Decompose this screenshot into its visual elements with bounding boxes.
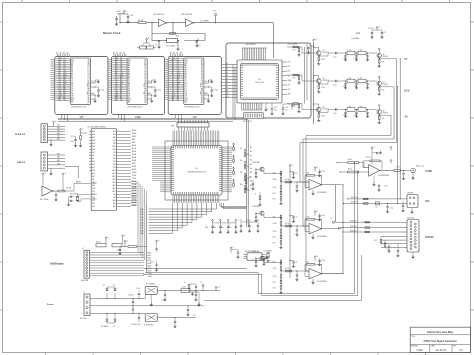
wire J2 pin rows — [48, 126, 65, 140]
svg-text:+5: +5 — [126, 240, 128, 242]
svg-text:D5: D5 — [71, 88, 73, 90]
ground U14 negative supply — [312, 234, 314, 236]
ground J3 — [50, 168, 52, 172]
resistor R23 75 CVBS series — [394, 170, 401, 172]
svg-text:CLK: CLK — [57, 130, 60, 132]
EPROM IC U10 body — [70, 58, 90, 104]
svg-text:D3: D3 — [88, 71, 90, 73]
svg-text:10k: 10k — [240, 172, 243, 174]
svg-text:+5: +5 — [125, 11, 127, 13]
svg-text:R 150: R 150 — [273, 187, 277, 189]
svg-text:100n: 100n — [228, 227, 231, 229]
svg-text:R 75: R 75 — [397, 167, 400, 169]
svg-text:D0: D0 — [201, 65, 203, 67]
svg-text:2SC458: 2SC458 — [383, 113, 389, 115]
connector J6 mini-DIN R/C — [407, 195, 418, 208]
wire subcarrier node — [262, 258, 268, 260]
svg-text:COM1: COM1 — [148, 276, 152, 278]
wire J3 to MCU area — [65, 166, 79, 178]
capacitor C1 — [115, 18, 117, 20]
svg-text:KEY2: KEY2 — [148, 258, 152, 260]
svg-text:GND: GND — [91, 93, 94, 95]
wire LPF row output — [379, 114, 391, 116]
svg-text:D6: D6 — [71, 90, 73, 92]
wire +5 analog rail vertical — [289, 168, 291, 278]
svg-text:D6: D6 — [201, 77, 203, 79]
resistor ladder r2 U15 — [280, 267, 282, 270]
power +5 master clock — [123, 10, 125, 14]
svg-text:C 1u: C 1u — [295, 262, 298, 264]
svg-text:R 1.2k: R 1.2k — [285, 268, 289, 270]
inductor L row second — [347, 51, 355, 55]
ground ICP parts — [80, 140, 82, 144]
svg-text:C 104: C 104 — [214, 90, 218, 92]
wire input ladder feed U13 — [300, 181, 309, 183]
svg-text:RN1: RN1 — [171, 126, 174, 128]
svg-text:RXD: RXD — [57, 127, 60, 129]
diode D2 — [114, 293, 116, 299]
resistor R2c base shunt — [298, 48, 300, 51]
svg-text:D6: D6 — [88, 77, 90, 79]
svg-text:VC1: VC1 — [288, 75, 291, 77]
resistor R3a base series — [293, 74, 298, 76]
svg-text:TP: TP — [201, 282, 203, 284]
svg-text:OE: OE — [185, 96, 187, 98]
EPROM U10 pin label columns — [56, 59, 71, 101]
svg-text:VY1: VY1 — [288, 66, 291, 68]
svg-text:R 1k: R 1k — [293, 106, 296, 108]
voltage regulator U18 7905 — [145, 314, 157, 322]
svg-text:+5: +5 — [82, 129, 84, 131]
ground below crystal network — [176, 47, 179, 50]
wire CVBS output — [380, 169, 394, 171]
svg-text:ROUT (75): ROUT (75) — [351, 197, 358, 199]
svg-text:U17 LM7805C: U17 LM7805C — [146, 284, 157, 286]
transistor Q1 2SC1815 — [317, 51, 322, 56]
IC U8 body — [247, 253, 262, 260]
serial converter U5 left pins — [222, 65, 237, 98]
wire trunk joins — [336, 221, 344, 223]
svg-text:OE: OE — [128, 96, 130, 98]
svg-text:U4: U4 — [195, 168, 197, 170]
ground U15 negative supply — [312, 279, 314, 281]
svg-text:D1: D1 — [144, 67, 146, 69]
capacitor C13 104 — [271, 103, 273, 107]
power +5 U5 — [291, 104, 293, 108]
power +5 U14 — [314, 211, 316, 215]
wire ladder to opamp U13 — [281, 181, 309, 183]
wire opamp3 output up to J7 row — [322, 232, 344, 274]
serial converter U5 TR9C1710 body — [237, 60, 282, 103]
wire LPF Cr feedback vertical — [305, 136, 307, 272]
svg-text:R 1.2k: R 1.2k — [285, 179, 289, 181]
wire EPROM Y/Y right pin drops — [94, 95, 96, 99]
svg-text:GOUT (75): GOUT (75) — [351, 201, 358, 203]
power +5 U16 — [371, 147, 373, 151]
serial converter U5 bottom pins — [242, 103, 262, 110]
svg-text:D3: D3 — [71, 84, 73, 86]
resistor R3b 470 emitter — [318, 83, 320, 85]
svg-text:R 150: R 150 — [273, 231, 277, 233]
svg-text:D0: D0 — [144, 65, 146, 67]
svg-text:KB3: KB3 — [57, 163, 60, 165]
svg-text:R148 (75): R148 (75) — [350, 230, 357, 232]
svg-text:OE: OE — [144, 82, 146, 84]
wire Q1 collector to rail — [314, 48, 319, 51]
svg-text:+: + — [310, 187, 311, 189]
svg-text:P11: P11 — [113, 155, 116, 157]
CPU pull-up resistors column A — [233, 147, 235, 150]
capacitor C11 104 — [152, 86, 155, 88]
group box serial converter and LPF — [226, 43, 311, 118]
ground C31 — [377, 153, 381, 155]
svg-text:Power: Power — [47, 304, 54, 306]
voltage regulator U17 7805 — [145, 286, 157, 294]
svg-text:R 1k: R 1k — [382, 62, 385, 64]
svg-text:D3: D3 — [144, 71, 146, 73]
resistor column J7 lower R150 — [380, 240, 382, 243]
svg-text:TP: TP — [330, 218, 332, 220]
capacitor C44 aux near MCU — [119, 247, 121, 250]
svg-text:VCC: VCC — [148, 81, 151, 83]
wire reset node feed — [74, 184, 91, 192]
svg-text:Y/Y: Y/Y — [404, 59, 408, 61]
capacitor C10 104 — [95, 86, 98, 88]
svg-text:R 1k: R 1k — [293, 50, 296, 52]
wire input ladder feed U15 — [306, 270, 309, 272]
svg-text:RESET: RESET — [92, 183, 97, 185]
svg-text:D6: D6 — [144, 77, 146, 79]
wire CVBS to jack — [401, 169, 410, 171]
svg-text:D5: D5 — [185, 88, 187, 90]
resistor R27 ladder to opamp1 — [259, 196, 261, 200]
svg-text:VREF: VREF — [288, 80, 292, 82]
power +5 U13 — [314, 167, 316, 171]
svg-text:D4: D4 — [128, 86, 130, 88]
svg-text:Jan 30,'94: Jan 30,'94 — [436, 350, 447, 352]
svg-text:C 104: C 104 — [321, 171, 325, 173]
ground U13 negative supply — [312, 190, 314, 192]
svg-text:D5: D5 — [128, 88, 130, 90]
ground aux right group — [155, 268, 158, 271]
capacitor LC shunt 3 — [367, 53, 369, 56]
capacitor C41 output2 — [195, 291, 197, 295]
inductor L row second — [347, 108, 355, 112]
svg-text:P14: P14 — [113, 164, 116, 166]
svg-text:+: + — [310, 276, 311, 278]
svg-text:C 104: C 104 — [321, 260, 325, 262]
ground Q1 emitter resistor — [318, 61, 320, 63]
capacitor C38 1000u low — [132, 310, 134, 314]
wire LC node 3 — [366, 80, 369, 82]
transistor Q2 follower 2SC458 — [377, 53, 382, 58]
wire L1 to node — [119, 15, 121, 23]
wire video loop B — [144, 172, 358, 296]
svg-text:D11: D11 — [226, 96, 229, 98]
power +5 reset B — [62, 173, 64, 177]
svg-text:GND: GND — [57, 133, 60, 135]
svg-text:CE: CE — [144, 80, 146, 82]
capacitor C46 U8 — [237, 251, 239, 253]
svg-text:NTSC Test Signal Generator: NTSC Test Signal Generator — [424, 340, 457, 343]
connector J3 body — [41, 152, 48, 171]
op-amp U16 CVBS NJM4580 — [369, 165, 380, 177]
wire crystal X2 to MPU — [78, 195, 92, 197]
svg-text:VCC: VCC — [57, 136, 60, 138]
resistor ladder r4 U15 — [280, 280, 282, 283]
resistor network J7 series resistors — [365, 221, 370, 223]
svg-text:D7: D7 — [201, 79, 203, 81]
title block row separators — [410, 334, 470, 336]
resistor ladder r1 U14 — [280, 214, 282, 216]
svg-text:D7: D7 — [128, 92, 130, 94]
capacitor LC shunt 2 — [356, 110, 358, 113]
border tick marks bottom — [46, 353, 426, 355]
wire LC node 3 — [366, 52, 369, 54]
svg-text:R 1.2k: R 1.2k — [285, 223, 289, 225]
wire reset supply — [42, 177, 44, 185]
node master clock output junction — [215, 22, 216, 23]
svg-text:C 82p: C 82p — [354, 86, 358, 88]
svg-text:D5: D5 — [226, 78, 228, 80]
EPROM group box -/Cr — [168, 57, 221, 115]
resistor R3c base shunt — [298, 76, 300, 79]
resistor network RN1 — [177, 123, 209, 127]
wire rail branch U13 — [289, 181, 290, 182]
svg-text:+5: +5 — [107, 237, 109, 239]
capacitor rail decoupling U14 — [290, 215, 294, 217]
capacitor input buffer U13 — [255, 171, 257, 173]
svg-text:C 82p: C 82p — [354, 115, 358, 117]
power +5 J2 — [52, 121, 54, 125]
svg-text:R 300: R 300 — [273, 268, 277, 270]
svg-text:10k: 10k — [240, 160, 243, 162]
CPU U4 left pins — [160, 147, 171, 192]
resistor R26 bias middle — [245, 180, 247, 184]
svg-text:+5: +5 — [158, 240, 160, 242]
CPU pull-up value labels — [240, 148, 250, 192]
connector J2 body — [41, 124, 48, 143]
svg-text:+5: +5 — [373, 147, 375, 149]
diode D3 — [106, 314, 108, 319]
wire reset output — [54, 190, 59, 192]
wire EPROM C/Cb bottom drops to bus — [119, 114, 125, 121]
svg-text:100n: 100n — [221, 227, 224, 229]
resistor ladder r2 U13 — [280, 178, 282, 181]
wire inter-block bus between Y/Y and C/Cb — [108, 59, 112, 99]
wire J7 input rows — [343, 222, 407, 232]
svg-text:C 10u: C 10u — [333, 84, 337, 86]
capacitor C12 104 — [209, 86, 212, 88]
svg-text:R/Cb/Cr: R/Cb/Cr — [426, 237, 435, 239]
svg-text:D10: D10 — [226, 93, 229, 95]
svg-text:R 300: R 300 — [273, 223, 277, 225]
svg-text:GND: GND — [204, 93, 207, 95]
power +5 Q6 collector — [378, 106, 380, 110]
svg-text:P11-B: P11-B — [132, 178, 136, 180]
svg-text:D1: D1 — [128, 80, 130, 82]
resistor series input U13 — [286, 181, 292, 183]
wire power mid to loop — [199, 305, 204, 307]
resistor ladder r3 U15 — [280, 271, 282, 275]
ground Q5 emitter resistor — [318, 117, 320, 119]
svg-text:OE: OE — [71, 96, 73, 98]
capacitor C2 22p — [158, 40, 160, 42]
wire feedback U15 — [315, 264, 322, 274]
wire C3 feed — [124, 13, 128, 15]
wire CVBS input B to opamp — [359, 171, 369, 173]
svg-text:fc=4.2MHz: fc=4.2MHz — [352, 38, 360, 40]
svg-text:P10: P10 — [92, 191, 95, 193]
wire LC node 3 — [366, 109, 369, 111]
capacitor C47 aux right 10u — [155, 247, 157, 249]
capacitor C36 1000u — [132, 299, 134, 302]
svg-text:OE: OE — [87, 82, 89, 84]
resistor pair above C/Cb EPROM — [140, 46, 147, 49]
svg-text:R: R — [255, 194, 256, 196]
resistor ladder r3 U13 — [280, 182, 282, 186]
svg-text:+5: +5 — [291, 165, 293, 167]
ground 7805 — [150, 294, 152, 303]
svg-text:C13: C13 — [274, 107, 277, 109]
ground U5 bottom — [265, 103, 267, 108]
svg-text:U16 NJM4580M: U16 NJM4580M — [378, 175, 390, 177]
svg-text:D7: D7 — [71, 92, 73, 94]
capacitor LC shunt 2 — [356, 53, 358, 56]
svg-text:R146 (75): R146 (75) — [350, 221, 357, 223]
test point TP2 — [202, 284, 204, 286]
ground U16 under — [373, 176, 375, 184]
power +5 analog rail — [289, 164, 291, 168]
svg-text:C 104: C 104 — [130, 15, 134, 17]
wire U5 to LPF distribution vertical A — [304, 47, 306, 104]
svg-text:D3: D3 — [128, 84, 130, 86]
capacitor C28 X2a — [72, 196, 75, 198]
wire loop pair tee into CVBS — [354, 162, 355, 163]
svg-text:R 10k: R 10k — [71, 136, 75, 138]
ground below C12 — [211, 91, 213, 94]
inductor L2 bead on C row — [375, 202, 379, 205]
connector J9 header below U5 — [244, 113, 263, 119]
svg-text:R 1k: R 1k — [176, 36, 179, 38]
svg-text:R 75: R 75 — [273, 193, 276, 195]
transistor Q3 2SC1815 — [317, 79, 322, 84]
resistor R30 aux near MCU — [124, 240, 126, 244]
svg-text:CE: CE — [87, 80, 89, 82]
svg-text:CE: CE — [128, 94, 130, 96]
test pad TP3 — [390, 146, 392, 150]
capacitor LC shunt 1 — [345, 81, 347, 84]
MPU U2 right pins — [117, 131, 132, 206]
capacitor C39 104 low — [138, 314, 140, 318]
svg-text:D0: D0 — [71, 79, 73, 81]
wire EPROM -/Cr bottom drops to bus — [175, 114, 181, 121]
svg-text:P12: P12 — [113, 158, 116, 160]
wire inter-block bus left of Y/Y — [51, 59, 55, 99]
wire MPU rows to CPU rows — [152, 147, 160, 180]
wire EPROM C/Cb top stubs — [114, 54, 126, 57]
wire EPROM -/Cr right pin drops — [208, 95, 210, 99]
EPROM IC U11 body — [127, 58, 147, 104]
capacitor LC shunt 2 — [356, 81, 358, 84]
svg-text:VCC: VCC — [91, 81, 94, 83]
svg-text:U1A 74HCU04: U1A 74HCU04 — [153, 13, 164, 16]
svg-text:D5: D5 — [201, 75, 203, 77]
inductor L row third — [358, 108, 366, 112]
connector J7 RGB body — [407, 220, 419, 253]
svg-text:D4: D4 — [226, 75, 228, 77]
svg-text:P12-B: P12-B — [132, 181, 136, 183]
wire Q3 collector to rail — [314, 76, 319, 79]
capacitor C51 J7 lower — [388, 245, 390, 247]
wire reset to MCU — [65, 190, 74, 192]
svg-text:C 82p: C 82p — [354, 58, 358, 60]
resistor ladder r3 U14 — [280, 226, 282, 230]
CPU U4 right pins — [222, 147, 232, 192]
capacitor supply U15 — [319, 258, 321, 260]
svg-text:104: 104 — [274, 109, 277, 111]
svg-text:D2: D2 — [144, 69, 146, 71]
wire address bus under EPROMs — [58, 117, 247, 119]
svg-text:R147 (75): R147 (75) — [350, 226, 357, 228]
svg-text:C: C — [222, 225, 223, 227]
resistor Q4 emitter 1k — [378, 86, 380, 88]
wire cap bank feed — [241, 221, 258, 223]
connector J5 RCA jack CVBS — [411, 168, 416, 173]
wire buffer to ladder U15 — [264, 260, 281, 263]
op-amp U14 NJM4580 — [309, 223, 322, 234]
EPROM IC U12 body — [184, 58, 204, 104]
wire LPF bias rail — [313, 43, 315, 124]
svg-text:R 1k: R 1k — [273, 173, 276, 175]
svg-text:TP 1: TP 1 — [213, 11, 216, 13]
svg-text:R C: R C — [249, 177, 251, 179]
svg-text:D8: D8 — [226, 87, 228, 89]
svg-text:P13-B: P13-B — [132, 184, 136, 186]
svg-text:CE: CE — [71, 94, 73, 96]
power +5V output arrow — [215, 286, 217, 290]
svg-text:MINIDIN4: MINIDIN4 — [408, 193, 414, 195]
svg-text:GND: GND — [288, 94, 291, 96]
svg-text:C 104: C 104 — [157, 90, 161, 92]
power +5 LPF bias — [313, 39, 315, 43]
resistor feedback U13 — [307, 174, 315, 176]
power +5 aux right group — [155, 240, 157, 244]
wire dial bus row to U8 — [144, 268, 247, 270]
svg-text:+: + — [370, 173, 371, 175]
EPROM U11 right pins — [147, 83, 152, 99]
svg-text:D1: D1 — [103, 285, 105, 287]
resistor R28 aux power — [188, 285, 190, 289]
svg-text:C: C — [229, 225, 230, 227]
svg-text:C 1u: C 1u — [295, 173, 298, 175]
wire rail branch U15 — [289, 270, 290, 271]
wire LPF row base feed — [287, 75, 316, 81]
svg-text:C 47p: C 47p — [343, 115, 347, 117]
svg-text:L 10u: L 10u — [359, 77, 363, 79]
capacitor supply U14 — [319, 213, 321, 215]
svg-text:27C512 (MX-27C512): 27C512 (MX-27C512) — [71, 107, 87, 109]
svg-text:Q2: Q2 — [383, 54, 385, 56]
svg-text:PSE-B: PSE-B — [132, 172, 136, 174]
wire feedback U13 — [315, 175, 322, 185]
svg-text:C 1000u C 104: C 1000u C 104 — [131, 324, 141, 326]
wire crystal stubs to ground — [158, 42, 160, 45]
wire CVBS input A to opamp — [359, 162, 364, 164]
wire CVBS input A — [337, 162, 348, 164]
resistor ladder r2 U14 — [280, 222, 282, 225]
trimmer capacitor CV2 — [263, 259, 265, 261]
